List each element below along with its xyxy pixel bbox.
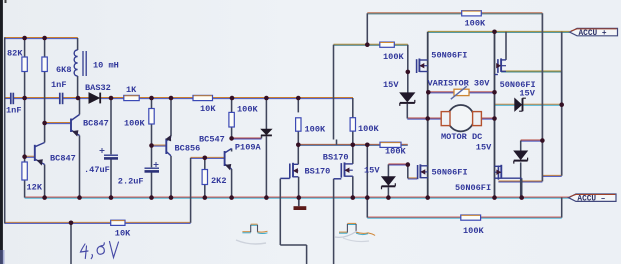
svg-text:P109A: P109A [235,143,262,153]
svg-text:BC847: BC847 [83,119,109,129]
svg-text:BS170: BS170 [305,167,331,177]
svg-text:100K: 100K [237,105,258,115]
svg-text:1K: 1K [126,85,137,95]
svg-text:1nF: 1nF [51,80,66,90]
svg-text:100K: 100K [358,124,379,134]
svg-text:100K: 100K [463,226,484,236]
svg-text:BC856: BC856 [175,144,201,154]
svg-text:15V: 15V [476,142,492,152]
svg-text:15V: 15V [383,80,399,90]
svg-text:2K2: 2K2 [211,176,226,186]
svg-text:BS170: BS170 [323,152,349,162]
svg-text:10 mH: 10 mH [93,60,119,70]
svg-text:50N06FI: 50N06FI [500,80,536,90]
svg-text:VARISTOR 30V: VARISTOR 30V [428,79,491,89]
svg-text:100K: 100K [124,119,145,129]
svg-text:50N06FI: 50N06FI [431,51,467,61]
svg-text:.47uF: .47uF [84,165,110,175]
svg-text:15V: 15V [364,165,380,175]
svg-text:82K: 82K [7,49,23,59]
svg-text:10K: 10K [200,104,216,114]
svg-text:50N06FI: 50N06FI [432,167,468,177]
svg-text:2.2uF: 2.2uF [118,177,144,187]
svg-text:100K: 100K [305,125,326,135]
svg-text:6K8: 6K8 [56,65,71,75]
svg-text:ACCU +: ACCU + [579,30,607,38]
svg-text:10K: 10K [115,229,131,239]
svg-text:50N06FI: 50N06FI [455,183,491,193]
svg-text:100K: 100K [383,52,404,62]
svg-text:BC547: BC547 [199,135,225,145]
svg-text:ACCU –: ACCU – [577,196,605,204]
svg-text:BC847: BC847 [50,154,76,164]
svg-text:12K: 12K [27,183,43,193]
svg-text:100K: 100K [385,147,406,157]
svg-text:100K: 100K [465,19,486,29]
svg-text:BAS32: BAS32 [85,83,111,93]
svg-text:1nF: 1nF [6,106,21,116]
svg-text:MOTOR DC: MOTOR DC [441,132,482,142]
